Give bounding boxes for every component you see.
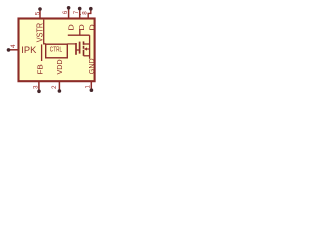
pin 1 (GND) — [90, 82, 92, 89]
junction dot pin 5 — [38, 7, 42, 11]
junction dot pin 6 — [67, 6, 71, 10]
drain bus wire — [68, 34, 90, 36]
svg-text:7: 7 — [73, 10, 80, 14]
pin 4 (IPK) — [10, 49, 18, 51]
junction dot pin 8 — [89, 7, 93, 11]
svg-text:FB: FB — [36, 64, 45, 74]
svg-text:8: 8 — [82, 11, 89, 15]
junction dot pin 1 — [90, 88, 94, 92]
body arrow — [84, 47, 87, 50]
wire CTRL to gate — [67, 43, 76, 45]
pin 3 (FB) — [38, 82, 40, 90]
gate crossbar — [76, 49, 80, 51]
svg-text:5: 5 — [34, 11, 41, 15]
mosfet right vertical (body) — [89, 35, 91, 59]
pin 8 (D) with elbow wire — [88, 10, 91, 18]
svg-text:3: 3 — [32, 85, 39, 89]
transistor Q1 channel segments — [83, 41, 85, 55]
junction dot pin 3 — [37, 90, 41, 94]
pin 7 (D) — [80, 10, 81, 18]
svg-text:D: D — [88, 24, 97, 31]
transistor Q1 gate bar — [79, 42, 81, 54]
pin 5 (VSTR) — [39, 10, 41, 18]
svg-text:IPK: IPK — [21, 45, 36, 55]
svg-text:2: 2 — [51, 85, 58, 89]
gate bar left — [75, 43, 77, 55]
pin 6 (D) — [68, 9, 70, 18]
IC U1 body — [19, 19, 95, 82]
drain connection — [84, 43, 90, 45]
arrow wire — [87, 48, 90, 50]
svg-text:1: 1 — [85, 85, 92, 89]
svg-text:4: 4 — [10, 44, 17, 48]
junction dot pin 7 — [78, 7, 82, 11]
junction dot pin 2 — [58, 89, 62, 93]
svg-text:D: D — [77, 24, 86, 31]
wire FB to CTRL area — [41, 44, 43, 61]
svg-text:D: D — [67, 24, 76, 31]
wire VSTR to CTRL — [44, 20, 46, 44]
wire D label to bus — [79, 30, 81, 35]
svg-text:GND: GND — [87, 58, 96, 74]
pin 2 (VDD) — [58, 82, 60, 90]
junction dot pin 4 — [7, 48, 11, 52]
CTRL block U1A — [46, 44, 68, 58]
svg-text:6: 6 — [62, 10, 69, 14]
source connection — [84, 55, 90, 57]
svg-text:VDD: VDD — [55, 59, 64, 74]
svg-text:CTRL: CTRL — [50, 46, 62, 53]
